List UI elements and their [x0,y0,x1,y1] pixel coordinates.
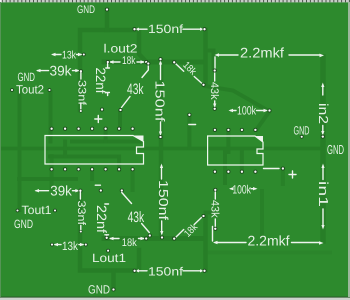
svg-text:150nf: 150nf [148,265,184,279]
capacitor 150nf central lower [156,164,171,240]
op-amp IC2 pads row bottom [213,170,258,174]
node Tout2 label with pads [10,83,51,97]
copper trace: right IC stub b [240,152,244,171]
svg-text:150nf: 150nf [148,22,184,36]
op-amp IC1 pads row bottom [50,167,135,171]
capacitor 33nf bottom [75,192,87,233]
resistor 13k bottom [50,239,88,253]
svg-text:13k: 13k [62,50,76,62]
resistor 18k diagonal top [172,60,205,87]
minus polarity mark right-top [189,124,196,126]
copper trace: IC1 pin1 to 39k bottom [50,156,54,188]
resistor 43k big bottom [120,188,152,237]
svg-text:22nf: 22nf [94,205,109,233]
svg-text:GND: GND [77,4,95,16]
resistor 100k bottom [229,182,258,196]
ground GND right-edge label [327,142,344,157]
copper trace: left IC column pin1 [49,92,53,142]
capacitor 33nf top [76,72,88,113]
svg-text:in2: in2 [316,103,331,124]
svg-text:100k: 100k [232,182,251,196]
resistor 43k bottom-right vertical [208,188,220,231]
svg-text:2.2mkf: 2.2mkf [248,233,290,249]
connector in1 [316,164,331,230]
copper trace: 100k bottom drop [260,191,264,240]
copper trace: IC1 right column down [131,171,135,190]
ruler ticks [2,0,350,2]
plus polarity mark right [289,171,296,178]
copper trace: 150nf bottom right pad riser [203,217,208,270]
copper trace: bottom 100k stub [223,150,227,183]
copper trace: left IC stub d [90,171,94,179]
resistor 18k diagonal bottom [172,214,205,241]
svg-text:22nf: 22nf [93,68,108,94]
svg-text:33nf: 33nf [76,80,88,106]
resistor 100k top [229,104,272,118]
copper trace: bottom-right band [205,251,330,255]
ground GND top label [77,4,95,16]
copper trace: branch bottom right [206,211,214,215]
copper trace: left IC inner upper [72,140,140,144]
capacitor 150nf bottom [133,265,207,279]
capacitor 150nf top [132,22,206,36]
copper trace: bottom-left horizontal [19,177,76,181]
capacitor 22nf bottom [94,188,109,239]
ground GND bottom-left label [14,217,33,231]
copper trace: left IC stub b [63,142,67,157]
copper trace: output pad stub right [281,170,285,184]
op-amp IC2 pads row top [213,128,258,132]
svg-text:100k: 100k [237,104,257,118]
svg-text:43k: 43k [127,81,144,98]
resistor 43k right vertical [208,68,220,110]
copper trace: left vertical rail [18,91,22,210]
op-amp IC2 right outline [208,136,263,165]
copper trace: branch to 43k top [206,51,214,69]
svg-text:GND: GND [327,142,344,157]
copper trace: top pad row bus [104,60,205,65]
resistor 18k top-left [106,55,149,67]
svg-text:150nf: 150nf [156,180,171,220]
svg-text:150nf: 150nf [152,80,167,121]
svg-text:2.2mkf: 2.2mkf [240,45,284,61]
copper trace: 100k to right IC diagonal [257,112,270,130]
copper trace: mid horizontal GND rail [0,147,322,151]
svg-text:13k: 13k [62,239,79,253]
svg-text:18k: 18k [122,237,137,249]
capacitor 22nf top [93,64,109,96]
copper trace: 43k pad to IC1 [118,112,122,128]
svg-text:Tout2: Tout2 [16,83,44,97]
svg-text:GND: GND [14,217,33,231]
svg-text:33nf: 33nf [75,201,87,227]
svg-text:Lout1: Lout1 [92,251,126,265]
capacitor 2.2mkf bottom [213,227,324,249]
svg-text:l.out2: l.out2 [104,42,138,56]
node Tout1 label with pads [16,203,57,217]
connector in2 [316,83,331,139]
copper trace: 150nf top right pad riser [203,30,208,83]
node l.out2 label [104,42,138,56]
copper trace: top GND pad stub [105,10,110,30]
ground GND bottom label [88,283,116,297]
copper trace: bottom 150nf riser [137,250,142,270]
right window edge [348,2,350,297]
svg-text:39k: 39k [50,63,73,79]
copper trace: left IC inner lower [50,155,119,159]
capacitor 2.2mkf top [215,45,325,70]
copper trace: 18k diag to 100k [205,86,267,110]
resistor 43k big top [118,61,150,112]
svg-text:39k: 39k [50,182,72,198]
svg-text:Tout1: Tout1 [22,203,52,217]
copper trace: left IC stub c [104,130,108,142]
plus polarity mark left [95,116,102,123]
copper trace: right vertical rail [320,57,326,241]
svg-text:43k: 43k [208,200,220,218]
copper trace: central column [159,61,164,237]
ground GND top pad [105,7,109,11]
svg-text:GND: GND [88,283,110,297]
resistor 39k bottom [35,182,83,198]
copper trace: inverting input stub [187,116,191,148]
ground GND mid-right label [294,124,310,139]
copper trace: bottom GND pad stub [111,271,116,288]
capacitor 150nf central upper [152,57,167,139]
copper trace: left IC stub a [117,157,121,171]
copper trace: right IC stub a [226,130,230,152]
wire to output pad right [264,166,285,170]
pad node inverting input right [187,113,191,117]
resistor 39k top [36,63,83,79]
left window edge [0,2,1,297]
copper trace: bottom pad row bus [104,236,205,241]
op-amp IC1 pads row top [50,127,135,131]
copper trace: top-left GND loop [80,30,134,110]
svg-text:18k: 18k [122,55,136,67]
resistor 18k bottom [109,236,148,249]
node Lout1 label with pad [92,249,126,265]
resistor 13k top [51,50,86,62]
copper trace: bottom-left GND loop [80,193,135,271]
ruler top edge [0,0,350,2]
op-amp IC1 left outline [45,136,144,165]
svg-text:in1: in1 [316,181,331,207]
svg-text:43k: 43k [208,82,220,100]
bottom window edge [0,297,350,300]
minus polarity mark left [95,184,100,186]
ground GND left label [18,70,36,84]
copper trace: 150nf to 43k [139,31,147,63]
pad node above plus [100,107,104,111]
